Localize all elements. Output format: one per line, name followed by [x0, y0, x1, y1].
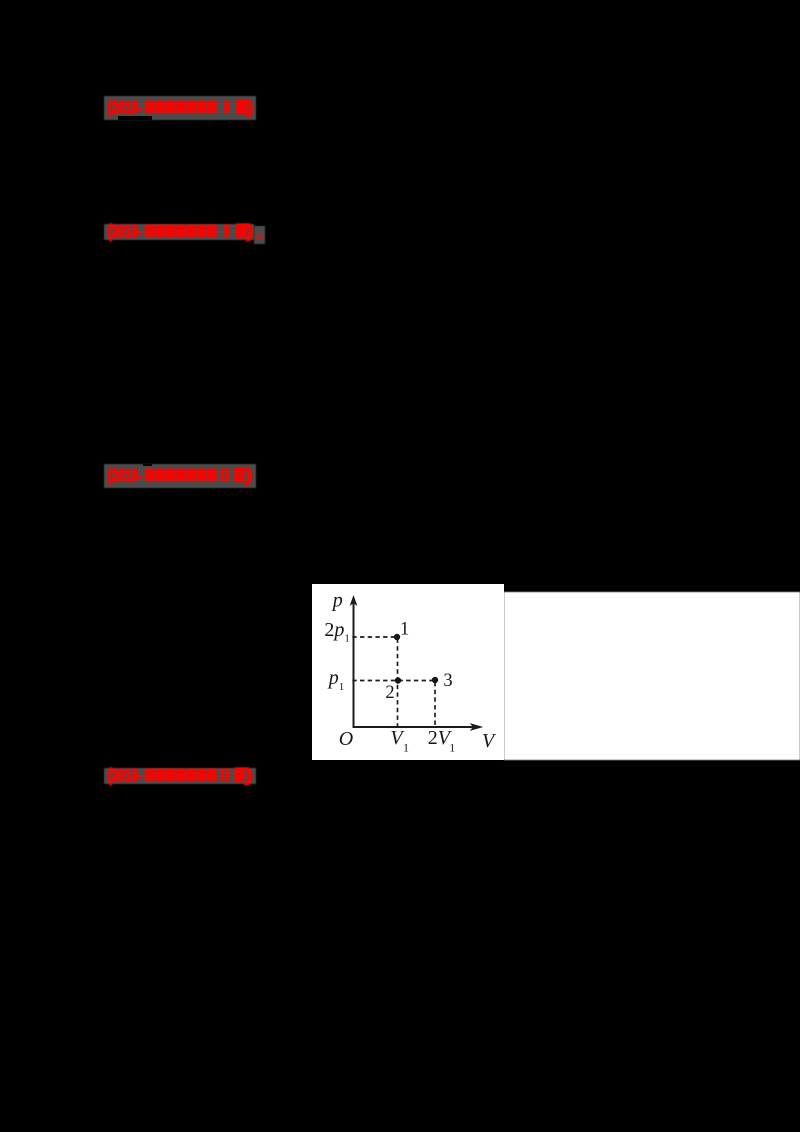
- point 2: [395, 677, 401, 683]
- arrowhead right: [470, 723, 484, 731]
- node tag-line-3 red text (2019 quan-guo juan II): [104, 464, 260, 488]
- svg-text:p1: p1: [327, 667, 345, 693]
- svg-text:3: 3: [443, 671, 452, 691]
- node tag-line-2 dark red period: [256, 233, 264, 240]
- dashed point1 down to axis: [397, 639, 399, 727]
- svg-text:p: p: [331, 590, 343, 612]
- svg-text:1: 1: [403, 741, 409, 755]
- svg-text:2p1: 2p1: [324, 619, 350, 644]
- axis p vertical: [353, 600, 355, 728]
- arrowhead up: [350, 595, 358, 606]
- node tag-line-1 highlight box: [104, 96, 256, 120]
- node tag-line-2 highlight tail: [254, 226, 265, 244]
- node figure: p-V diagram: [312, 584, 504, 760]
- node tag-line-3 highlight box: [104, 464, 256, 488]
- node tag-line-3 notch: [143, 464, 152, 466]
- dashed point3 down to axis: [434, 682, 436, 726]
- node tag-line-2 highlight box: [104, 224, 254, 241]
- svg-text:O: O: [339, 728, 353, 750]
- dashed 2p1 to point1: [352, 636, 397, 638]
- point 3: [432, 677, 438, 683]
- node tag-line-4 red text (2019 quan-guo juan II): [104, 764, 260, 788]
- svg-text:V: V: [482, 730, 497, 752]
- svg-text:1: 1: [400, 620, 409, 640]
- node tag-line-1 notch: [118, 116, 152, 120]
- node tag-line-2 red text (2019 quan-guo juan I): [104, 220, 260, 244]
- node tag-line-4 highlight box: [104, 768, 256, 784]
- svg-text:2: 2: [385, 683, 394, 703]
- svg-text:1: 1: [449, 741, 455, 755]
- dashed p1 to point3: [352, 680, 435, 682]
- point 1: [394, 634, 400, 640]
- node white-paragraph-band right of figure: [504, 592, 800, 761]
- node tag-line-1 red text (2019 quan-guo juan I): [104, 96, 260, 120]
- axis V horizontal: [353, 726, 475, 728]
